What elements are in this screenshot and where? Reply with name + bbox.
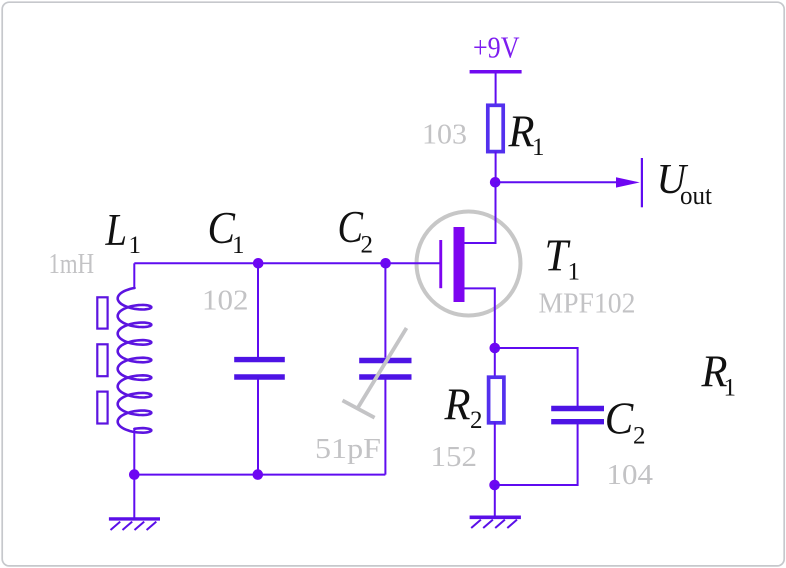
wire node to output arrow (496, 181, 617, 183)
output arrowhead (616, 177, 640, 187)
node source junction (490, 343, 501, 354)
svg-text:L: L (105, 205, 127, 255)
ground (left) (109, 519, 160, 530)
variable capacitor arrow (358, 328, 407, 408)
wire drain from channel to node (465, 182, 496, 243)
svg-text:2: 2 (361, 232, 374, 259)
svg-text:102: 102 (202, 285, 249, 317)
wire power bar to R1 (495, 74, 497, 107)
svg-text:1: 1 (568, 259, 581, 286)
svg-text:2: 2 (470, 407, 483, 434)
wire C1 bottom (257, 380, 259, 475)
capacitor C1 (234, 357, 285, 362)
wire R2 node to ground (494, 485, 496, 516)
svg-text:1: 1 (532, 134, 545, 161)
wire source node to R2 (494, 348, 496, 378)
inductor core mark 1 (97, 297, 107, 328)
output terminal bar (641, 158, 643, 207)
inductor core mark 2 (97, 344, 107, 376)
power rail bar (470, 70, 522, 74)
node C2 top (380, 258, 391, 269)
resistor R2 (489, 377, 504, 423)
wire bypass branch bottom (495, 424, 578, 485)
inductor core mark 3 (97, 392, 107, 424)
ground (right) (470, 517, 521, 528)
inductor L1 coil (118, 288, 152, 433)
wire C2 top (384, 263, 386, 357)
wire R1 to drain node (495, 152, 497, 183)
node drain junction (490, 177, 501, 188)
transistor T1 body circle (417, 212, 521, 316)
transistor T1 gate bar (439, 240, 442, 288)
bottom rail wire (134, 474, 385, 476)
svg-text:MPF102: MPF102 (539, 287, 636, 319)
svg-text:103: 103 (422, 119, 467, 151)
wire L1 top corner down (133, 263, 135, 289)
wire C1 top (257, 263, 259, 357)
capacitor C2 (bypass) (551, 406, 604, 411)
top rail wire from L1 to gate (134, 262, 439, 264)
wire source from channel down (465, 288, 495, 348)
svg-text:1: 1 (129, 232, 142, 259)
node C1 top (253, 258, 264, 269)
node L1 bottom (129, 469, 140, 480)
variable capacitor C2 plates (359, 358, 411, 363)
svg-text:104: 104 (607, 459, 654, 491)
wire bypass branch top (495, 348, 578, 406)
svg-text:R: R (508, 106, 535, 156)
wire L1 bottom down to rail and ground (133, 428, 135, 519)
svg-text:out: out (680, 181, 713, 210)
svg-text:R: R (444, 380, 471, 430)
svg-text:51pF: 51pF (315, 433, 381, 465)
svg-text:2: 2 (633, 423, 646, 450)
svg-text:1: 1 (724, 374, 737, 401)
resistor R1 (488, 105, 503, 151)
svg-text:+9V: +9V (473, 30, 520, 65)
wire C2 bottom (384, 380, 386, 475)
transistor T1 channel bar (454, 227, 465, 302)
svg-text:C: C (605, 394, 634, 444)
svg-text:1mH: 1mH (49, 248, 95, 280)
svg-text:1: 1 (232, 232, 245, 259)
wire R2 bottom (494, 423, 496, 486)
node R2 bottom junction (489, 480, 500, 491)
svg-text:152: 152 (431, 441, 478, 473)
node C1 bottom (252, 469, 263, 480)
